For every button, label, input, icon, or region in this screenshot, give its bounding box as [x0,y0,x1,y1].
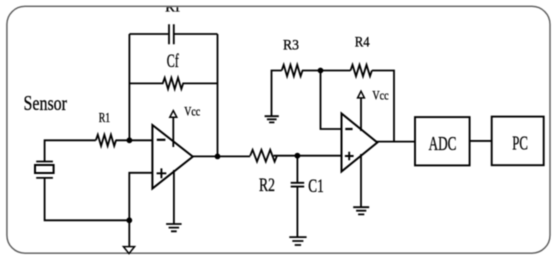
wire U1 plus input to bottom rail [129,173,152,221]
op-amp U1 [152,125,192,189]
ground (below U1) [166,224,182,231]
svg-text:R2: R2 [259,176,275,196]
wire R4 right to U2 output [372,71,394,142]
svg-text:C1: C1 [308,177,324,197]
resistor R4 [351,65,372,76]
wire U2 to ground [360,154,362,207]
wire to earth arrow [128,220,130,246]
op-amp U2 minus pin mark [345,128,352,130]
op-amp U1 plus pin mark [157,168,167,178]
node junction B (bottom rail / earth) [126,217,132,223]
block PC [492,117,544,166]
resistor R1 [96,135,116,146]
wire feedback left side [128,34,130,140]
svg-text:ADC: ADC [429,133,457,155]
wire C1 bottom to ground [296,187,298,237]
ground (below U2) [353,207,369,214]
svg-text:Rf: Rf [165,1,181,16]
node junction E (R3/R4/U2 minus) [318,68,324,74]
svg-text:R4: R4 [355,34,371,50]
block ADC [415,117,470,165]
wire R3 left corner [272,71,282,117]
svg-text:R3: R3 [283,37,299,53]
node Rf label (clipped by figure top edge) [165,1,181,16]
wire U2 output to ADC [376,141,415,143]
wire sensor top to R1 [45,140,96,161]
ground (below R3) [265,116,279,122]
wire Vcc stem into U2 [360,98,362,131]
wire U1 to ground [173,170,175,224]
power Vcc arrow (U1) [170,111,177,118]
resistor R3 [282,65,303,76]
wire R3 to R4 [302,70,351,72]
node junction D (R2 / C1) [295,153,301,159]
svg-text:R1: R1 [99,111,111,126]
wire U1 output to R2 [193,155,250,157]
op-amp U1 minus pin mark [157,139,166,141]
svg-text:Sensor: Sensor [24,91,68,115]
wire C1 top [296,156,298,183]
wire junction E down to U2 minus input [321,71,342,130]
resistor R2 [250,150,277,162]
svg-text:Cf: Cf [167,52,180,72]
wire sensor bottom rail [45,178,130,220]
node junction C (U1 output) [215,154,221,160]
svg-text:Vcc: Vcc [184,104,200,118]
op-amp U2 [342,114,378,172]
ground earth arrow (hollow) [123,247,134,254]
wire feedback top branch [129,33,217,35]
power Vcc arrow (U2) [358,91,365,98]
sensor X1 (piezo element) [35,162,54,178]
capacitor C1 [291,183,305,187]
svg-text:PC: PC [512,133,528,155]
wire feedback right side [217,34,219,156]
svg-text:Vcc: Vcc [372,89,389,103]
ground (below C1) [289,237,306,245]
wire Vcc stem into U1 [172,117,174,147]
wire R2 to op-amp U2 plus input [274,155,342,157]
wire R1 to inverting input [116,139,153,141]
capacitor (feedback top branch) [169,24,174,44]
node junction A (R1 / feedback / op-amp1 minus) [126,137,132,143]
op-amp U2 plus pin mark [345,152,354,161]
wire ADC to PC [470,140,492,142]
resistor Cf-branch (middle feedback branch) [129,78,217,89]
